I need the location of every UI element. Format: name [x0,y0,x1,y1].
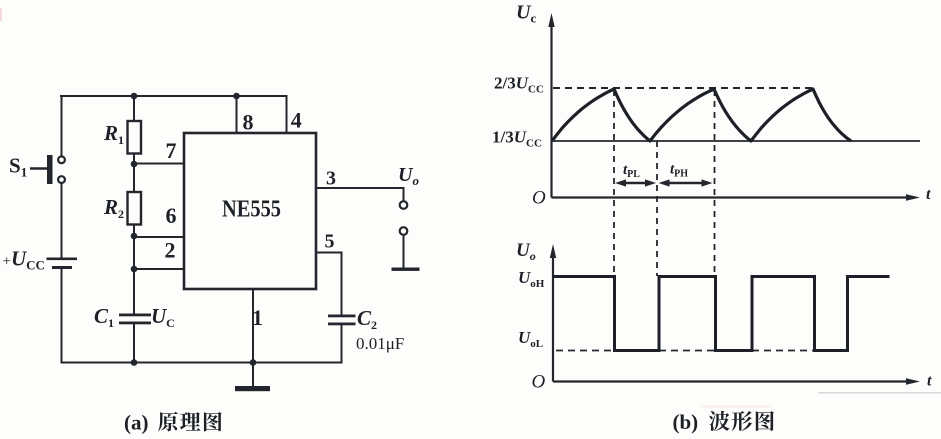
dashed vertical at second peak [714,90,716,276]
switch S1 lower contact circle [58,176,65,183]
junction node 6 [131,233,138,240]
dashed vertical at first peak [613,90,615,276]
junction node 7 [131,161,138,168]
wire: pin 8 vertical drop [236,96,238,133]
1/3 Ucc solid level line [552,140,921,142]
top graph time axis [552,196,911,198]
wire: C2 bottom to bottom rail [341,324,343,363]
svg-text:O: O [532,372,546,393]
scan artifact grey line bottom right [818,392,941,394]
resistor R1 body [128,121,142,154]
junction node top rail pin8 [233,93,240,100]
svg-text:4: 4 [291,108,302,133]
output lower terminal circle [400,227,408,235]
tPL double arrow [615,179,656,186]
wire: switch lower contact to battery top [61,184,63,258]
wire: pin 7 horizontal [134,163,184,165]
dashed vertical at first trough [656,141,658,276]
2/3 Ucc dashed level line [553,87,814,89]
svg-text:0.01μF: 0.01μF [356,334,404,353]
switch S1 pushbutton bar [47,155,53,184]
svg-text:NE555: NE555 [222,197,281,223]
svg-text:(a): (a) [124,411,149,435]
svg-text:1: 1 [252,305,263,330]
top graph time axis arrowhead [906,194,920,200]
output upper terminal circle [400,201,408,209]
svg-text:t: t [926,186,931,203]
switch S1 actuator stroke [30,167,47,169]
svg-text:O: O [532,188,546,209]
wire: R2 bottom down through node6 node2 to C1 [133,224,135,314]
resistor R2 body [128,192,142,225]
wire: C1 bottom to bottom rail [133,323,135,363]
svg-text:t: t [927,373,932,390]
battery +Ucc long plate [47,258,78,261]
wire: top rail from left corner to pin4 corner [61,95,287,97]
wire: pin 1 vertical to ground [252,289,254,386]
Uo axis vertical (bottom graph) [552,252,554,382]
wire: pin 4 vertical drop [286,96,288,133]
UoL dashed baseline segment 3 [752,350,814,352]
ground symbol main [235,386,270,391]
op-amp U1 NE555 box [184,133,316,289]
junction node 2 [131,266,138,273]
bottom graph time axis arrowhead [906,378,920,384]
switch S1 upper contact circle [58,156,65,163]
scan artifact faint pink line bottom middle [700,406,772,408]
wire: pin 3 output lead [316,188,404,201]
wire: bottom ground rail [62,362,342,364]
junction node C1 bottom rail [131,359,138,366]
output square waveform [554,277,890,351]
ground bar under output [392,268,420,271]
capacitor C1 bottom plate [119,322,151,325]
svg-text:2: 2 [165,238,176,263]
caption (a) chinese 原理图 placeholder [158,412,222,432]
capacitor voltage waveform [552,89,851,141]
UoL dashed baseline segment 1 [556,350,614,352]
junction node pin1 bottom rail [250,359,257,366]
wire: pin 2 horizontal [134,268,184,270]
svg-text:8: 8 [243,110,254,135]
wire: output lower terminal to ground [403,235,405,267]
svg-text:3: 3 [326,168,336,190]
bottom graph time axis [553,380,910,382]
tPH double arrow [659,179,713,186]
junction node top rail R1 [131,93,138,100]
Uo axis arrowhead [550,244,556,258]
wire: R1 top feed [133,96,135,122]
caption (b) chinese 波形图 placeholder [709,411,774,431]
svg-text:5: 5 [325,231,335,253]
wire: battery bottom to bottom rail [61,269,63,363]
Uc axis vertical [550,22,552,198]
svg-text:(b): (b) [673,410,699,434]
UoL dashed baseline segment 2 [659,350,715,352]
Uc axis arrowhead [548,13,554,27]
capacitor C1 top plate [119,314,151,317]
scan artifact red mark left edge [0,8,2,21]
caption (a) [124,411,149,435]
wire: R1 bottom to node7 to R2 top [133,154,135,193]
wire: left vertical from top rail to switch [61,96,63,156]
wire: pin 5 lead to C2 [316,253,342,315]
capacitor C2 bottom plate [328,323,356,326]
wire: pin 6 horizontal [134,236,184,238]
battery +Ucc short plate [52,266,72,269]
svg-text:6: 6 [166,203,177,228]
capacitor C2 top plate [328,315,356,318]
svg-text:7: 7 [166,138,177,163]
